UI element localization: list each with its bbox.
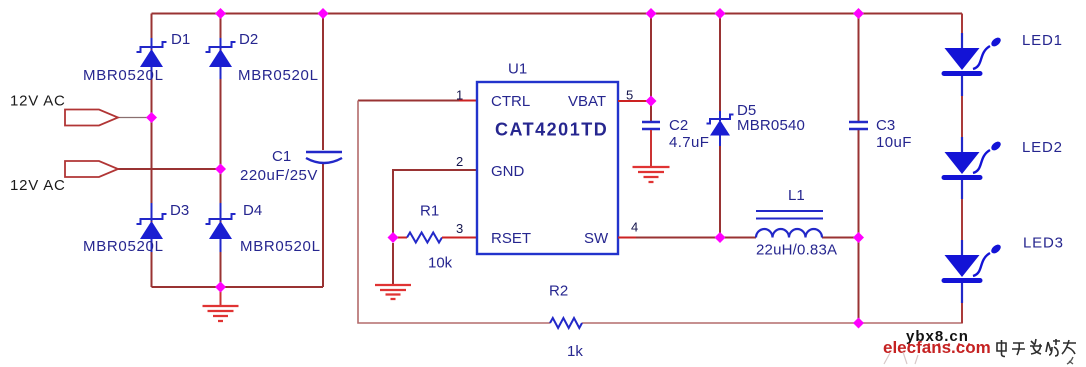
wire bottom bridge rail bbox=[152, 286, 324, 288]
watermark corner tick bbox=[1067, 357, 1073, 364]
node VBAT / C2 bbox=[646, 96, 657, 107]
wire C1 column bbox=[322, 14, 324, 288]
svg-text:MBR0520L: MBR0520L bbox=[238, 67, 319, 84]
wire CTRL pin1 horizontal bbox=[358, 100, 459, 102]
svg-text:D4: D4 bbox=[243, 202, 262, 219]
svg-text:MBR0520L: MBR0520L bbox=[240, 238, 321, 255]
svg-text:R1: R1 bbox=[420, 203, 439, 220]
svg-text:1: 1 bbox=[456, 88, 463, 103]
capacitor C3 bbox=[849, 117, 912, 151]
wire top supply rail bbox=[152, 13, 963, 15]
svg-text:D1: D1 bbox=[171, 31, 190, 48]
svg-text:U1: U1 bbox=[508, 61, 527, 78]
wire D1/D3 column bbox=[151, 14, 153, 288]
svg-text:RSET: RSET bbox=[491, 230, 531, 247]
svg-text:C3: C3 bbox=[876, 117, 895, 134]
wire CTRL feedback loop bbox=[358, 101, 962, 324]
wire D5 column bbox=[719, 14, 721, 238]
node feedback / C3 bottom bbox=[853, 318, 864, 329]
svg-text:22uH/0.83A: 22uH/0.83A bbox=[756, 242, 837, 259]
node L1 out / C3 bbox=[853, 232, 864, 243]
LED2 bbox=[942, 137, 1063, 199]
diode D2 bbox=[206, 31, 319, 84]
diode D5 bbox=[707, 102, 806, 146]
svg-text:SW: SW bbox=[584, 230, 609, 247]
svg-text:MBR0520L: MBR0520L bbox=[83, 238, 164, 255]
wire VBAT pin5 stub bbox=[618, 100, 651, 102]
svg-text:MBR0540: MBR0540 bbox=[737, 117, 805, 134]
svg-text:GND: GND bbox=[491, 163, 525, 180]
svg-text:CAT4201TD: CAT4201TD bbox=[495, 120, 608, 140]
wire SW line pin4 bbox=[618, 237, 636, 239]
node top rail / C1 bbox=[318, 8, 329, 19]
wire LED string column bbox=[961, 14, 963, 324]
LED3 bbox=[942, 235, 1064, 304]
svg-text:1k: 1k bbox=[567, 343, 583, 360]
svg-text:L1: L1 bbox=[788, 187, 805, 204]
wire D2/D4 column bbox=[220, 14, 222, 288]
wire AC2 link bbox=[118, 168, 221, 170]
svg-text:3: 3 bbox=[456, 221, 463, 236]
svg-text:4.7uF: 4.7uF bbox=[669, 134, 709, 151]
watermark CJK 发 bbox=[1030, 339, 1042, 354]
watermark CJK 子 bbox=[1012, 343, 1025, 355]
resistor R2 bbox=[549, 283, 583, 361]
resistor R1 bbox=[393, 203, 477, 272]
svg-text:D2: D2 bbox=[239, 31, 258, 48]
watermark CJK 烧 bbox=[1046, 339, 1060, 356]
ground R1 bbox=[375, 243, 411, 299]
ground C2 bbox=[633, 130, 670, 182]
svg-text:12V AC: 12V AC bbox=[10, 93, 66, 110]
svg-text:4: 4 bbox=[631, 220, 638, 235]
svg-text:MBR0520L: MBR0520L bbox=[83, 67, 164, 84]
svg-text:LED1: LED1 bbox=[1022, 32, 1063, 49]
svg-text:D3: D3 bbox=[170, 202, 189, 219]
node SW / D5 bbox=[715, 232, 726, 243]
diode D3 bbox=[83, 202, 189, 255]
capacitor C2 bbox=[642, 117, 709, 151]
watermark CJK 友 bbox=[1062, 340, 1076, 354]
watermark faint strokes bbox=[884, 352, 918, 364]
svg-text:10k: 10k bbox=[428, 255, 453, 272]
op-amp / IC U1 CAT4201TD bbox=[456, 61, 638, 255]
connector 12V AC input 2 bbox=[10, 161, 118, 194]
node top rail / C3 bbox=[853, 8, 864, 19]
node AC2 / D2-D4 bbox=[215, 164, 226, 175]
svg-text:R2: R2 bbox=[549, 283, 568, 300]
diode D1 bbox=[83, 31, 190, 84]
svg-text:10uF: 10uF bbox=[876, 134, 912, 151]
node AC1 / D1-D3 bbox=[146, 112, 157, 123]
svg-text:LED2: LED2 bbox=[1022, 139, 1063, 156]
ground bridge rectifier bbox=[203, 287, 239, 321]
svg-text:elecfans.com: elecfans.com bbox=[883, 338, 991, 357]
node bridge ground bbox=[215, 282, 226, 293]
watermark dotted underline bbox=[908, 343, 970, 345]
connector 12V AC input 1 bbox=[10, 93, 118, 126]
wire C2 column bbox=[650, 14, 652, 122]
node top rail / D5 bbox=[715, 8, 726, 19]
node top rail / C2 bbox=[646, 8, 657, 19]
watermark CJK 电 bbox=[997, 340, 1006, 357]
capacitor C1 bbox=[240, 148, 342, 184]
svg-text:LED3: LED3 bbox=[1023, 235, 1064, 252]
diode D4 bbox=[206, 202, 321, 255]
node top rail / D2 bbox=[215, 8, 226, 19]
node R1 / GND bbox=[388, 232, 399, 243]
wire AC1 link bbox=[118, 117, 152, 119]
LED1 bbox=[942, 32, 1063, 96]
wire C3 column bbox=[858, 14, 860, 324]
svg-text:C2: C2 bbox=[669, 117, 688, 134]
svg-text:220uF/25V: 220uF/25V bbox=[240, 167, 318, 184]
wire CTRL pin1 red stub bbox=[459, 100, 477, 102]
svg-text:C1: C1 bbox=[272, 148, 291, 165]
svg-text:2: 2 bbox=[456, 154, 463, 169]
inductor L1 bbox=[756, 187, 837, 259]
svg-text:12V AC: 12V AC bbox=[10, 177, 66, 194]
svg-text:VBAT: VBAT bbox=[568, 93, 606, 110]
wire GND pin2 bbox=[393, 170, 477, 238]
svg-text:CTRL: CTRL bbox=[491, 93, 530, 110]
